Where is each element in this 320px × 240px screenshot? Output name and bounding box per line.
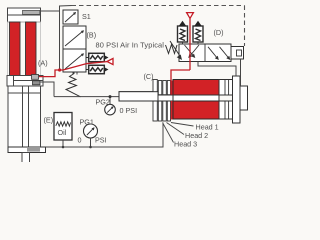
svg-text:(A): (A) <box>38 59 48 68</box>
svg-text:0 PSI: 0 PSI <box>120 106 138 115</box>
svg-text:(E): (E) <box>44 116 54 125</box>
svg-text:(C): (C) <box>144 72 154 81</box>
svg-text:PG1: PG1 <box>80 118 94 127</box>
svg-text:Head 3: Head 3 <box>174 140 197 149</box>
svg-text:Oil: Oil <box>58 128 67 137</box>
svg-text:0: 0 <box>78 136 82 145</box>
svg-text:PG2: PG2 <box>96 98 110 107</box>
svg-text:(D): (D) <box>214 28 224 37</box>
svg-text:(B): (B) <box>87 31 97 40</box>
svg-text:PSI: PSI <box>95 136 107 145</box>
svg-text:S1: S1 <box>82 12 91 21</box>
svg-text:80 PSI Air In Typical: 80 PSI Air In Typical <box>96 41 165 50</box>
